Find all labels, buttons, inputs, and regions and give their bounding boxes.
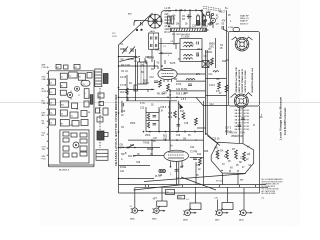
labels pack <box>214 148 251 170</box>
tick marks v3 <box>157 66 159 69</box>
cap marks on wire <box>238 124 242 126</box>
vertical wire <box>177 101 179 132</box>
left margin ticks <box>47 67 49 155</box>
svg-text:262K: 262K <box>42 91 47 93</box>
cap marks on drop <box>187 14 189 19</box>
cap <box>188 83 192 85</box>
svg-text:C5 05: C5 05 <box>148 58 155 60</box>
pilot jack circles <box>159 169 166 172</box>
svg-text:C1: C1 <box>50 83 52 85</box>
scan fold artifact <box>0 102 320 104</box>
wire <box>204 105 229 107</box>
cover part <box>80 139 87 143</box>
diag wire to pack <box>207 136 220 146</box>
svg-text:6AT6: 6AT6 <box>170 62 176 65</box>
labels sw <box>120 145 135 150</box>
svg-text:L: L <box>85 93 86 95</box>
svg-text:6BA6: 6BA6 <box>130 218 135 221</box>
diagonal wire to pack <box>144 174 246 182</box>
svg-text:76 PM: 76 PM <box>243 126 249 128</box>
svg-text:250K: 250K <box>130 123 136 125</box>
resistor on wire <box>134 85 138 91</box>
labels above box <box>140 103 154 110</box>
labels out2 <box>125 152 201 179</box>
svg-text:C23 05: C23 05 <box>212 139 220 141</box>
shield double line <box>205 50 207 135</box>
antenna terminal dot <box>136 29 138 31</box>
top labels col2 <box>173 16 189 26</box>
top row box <box>87 73 92 79</box>
svg-text:V1: V1 <box>79 77 81 79</box>
svg-text:AVC: AVC <box>42 114 47 117</box>
mid part <box>81 111 87 117</box>
connector tick <box>255 185 257 188</box>
top labels col3 <box>204 16 227 29</box>
labels V4 area <box>170 147 209 180</box>
svg-text:T1: T1 <box>61 77 63 79</box>
top v2 labels <box>192 8 229 32</box>
resistor in pack <box>243 152 246 161</box>
labels out <box>120 149 202 177</box>
wire <box>128 139 204 141</box>
coil mid <box>213 71 219 72</box>
wire <box>126 100 177 102</box>
cover part <box>80 152 87 156</box>
svg-text:6AQ5: 6AQ5 <box>239 219 244 222</box>
notes text block <box>262 178 284 200</box>
chassis fold dashed line <box>99 88 101 148</box>
cover part <box>71 133 77 137</box>
long wire <box>226 10 228 135</box>
diag wire to pack <box>206 133 219 144</box>
wire <box>133 155 164 157</box>
svg-text:76 PM: 76 PM <box>243 119 249 121</box>
wire <box>177 73 205 75</box>
resistor on long wire <box>225 85 228 92</box>
resistor in pack <box>226 150 229 159</box>
svg-text:6BE6: 6BE6 <box>152 219 157 221</box>
chassis bottom edge <box>48 164 94 166</box>
svg-text:C4 05: C4 05 <box>165 17 172 19</box>
coil top leads <box>139 58 141 62</box>
resistor in pack <box>235 150 238 159</box>
connector box <box>99 102 104 106</box>
ground bus wire <box>119 184 267 186</box>
svg-text:C7: C7 <box>78 95 80 97</box>
svg-text:R1: R1 <box>61 86 63 88</box>
wire <box>146 131 204 133</box>
svg-text:6V: 6V <box>180 167 183 169</box>
svg-text:C15: C15 <box>168 113 173 115</box>
svg-text:8A 188: 8A 188 <box>235 125 243 128</box>
labels IF <box>184 44 227 107</box>
spark plate dark stack <box>103 74 108 84</box>
paper noise overlay <box>40 0 300 226</box>
svg-text:PL 47: PL 47 <box>155 176 162 178</box>
wire speaker to pack <box>242 108 244 144</box>
svg-text:T: T <box>88 98 89 100</box>
dark narrow part <box>90 95 93 105</box>
resistor R11 <box>174 111 177 118</box>
resistor R7 <box>211 58 214 65</box>
dots <box>151 139 153 141</box>
svg-text:C8 1: C8 1 <box>197 49 203 51</box>
svg-text:RECT: RECT <box>219 12 226 14</box>
svg-text:8A 188: 8A 188 <box>235 128 243 131</box>
tuning gang box <box>149 33 159 49</box>
vertical wire <box>195 162 197 185</box>
cover part <box>72 153 77 157</box>
vertical wire <box>169 101 171 140</box>
trimmer cap arrow <box>122 47 128 54</box>
socket drop wire <box>195 187 197 203</box>
svg-text:C2 05: C2 05 <box>120 77 127 79</box>
cap in ladder <box>153 115 157 117</box>
electrolytic cap C20 <box>197 16 200 25</box>
long vertical wire <box>203 101 205 186</box>
tall part <box>84 89 89 99</box>
speaker top plate <box>232 37 253 51</box>
svg-text:C3: C3 <box>50 103 52 105</box>
resistor R15 <box>199 158 202 165</box>
svg-text:VIB: VIB <box>214 148 218 150</box>
cap below tube <box>175 169 179 171</box>
left col part <box>50 119 56 125</box>
wire <box>121 101 123 113</box>
svg-text:B2: B2 <box>75 67 77 69</box>
top row box <box>60 73 67 79</box>
svg-text:L2: L2 <box>70 91 72 93</box>
diag wire <box>196 97 204 106</box>
svg-text:76 PM: 76 PM <box>243 123 249 125</box>
svg-text:6X4: 6X4 <box>204 26 209 28</box>
svg-text:C7 05: C7 05 <box>120 85 127 87</box>
svg-text:VOICE COIL 3.2 OHM: VOICE COIL 3.2 OHM <box>245 70 247 92</box>
svg-text:PL: PL <box>167 192 169 194</box>
tick <box>194 130 196 132</box>
vertical wire <box>160 38 162 70</box>
junction dots extra <box>135 65 137 67</box>
svg-text:C4: C4 <box>50 113 52 115</box>
labels left col <box>120 49 133 85</box>
diagonal shield wire <box>119 13 153 45</box>
connector tick <box>238 185 240 188</box>
svg-text:C3 R1: C3 R1 <box>165 11 172 13</box>
resistor R6 <box>167 84 170 91</box>
antenna coupling cap <box>140 22 142 26</box>
shield hatch dashes <box>203 6 221 11</box>
svg-text:76 PM: 76 PM <box>243 129 249 131</box>
top mounting tab <box>233 28 240 32</box>
bottom border wire <box>119 192 260 194</box>
svg-text:C2: C2 <box>50 92 52 94</box>
mid part <box>81 120 88 126</box>
gang trimmer <box>149 44 151 47</box>
svg-text:TONE: TONE <box>143 143 150 145</box>
svg-text:SP 12V: SP 12V <box>216 181 223 183</box>
svg-text:C21: C21 <box>197 24 202 26</box>
mid part <box>72 121 79 127</box>
left border wire <box>118 45 120 193</box>
labels sw2 <box>128 156 141 164</box>
RF unit hatched bar <box>171 28 207 31</box>
svg-text:MEG: MEG <box>165 23 170 25</box>
lamp lead <box>212 23 214 28</box>
bottom cover inner rect <box>60 130 89 163</box>
labels AF left <box>120 85 128 94</box>
wire <box>175 43 177 49</box>
cap C10 <box>154 80 158 82</box>
svg-text:R21 25: R21 25 <box>128 156 136 158</box>
top right text block <box>240 15 250 26</box>
svg-text:R2 1M: R2 1M <box>165 20 172 22</box>
labels density2 <box>141 45 203 96</box>
labels mid2 <box>143 107 191 145</box>
speaker plug block <box>97 131 104 140</box>
svg-text:C13: C13 <box>140 108 145 110</box>
svg-text:8A 188: 8A 188 <box>235 112 243 115</box>
svg-text:C17 5: C17 5 <box>225 128 232 130</box>
wire <box>119 88 155 90</box>
wire <box>190 157 204 159</box>
tube socket S3 <box>183 203 201 216</box>
labels top2 <box>207 12 233 24</box>
svg-text:C9: C9 <box>76 109 78 111</box>
svg-text:470K: 470K <box>176 84 182 86</box>
svg-text:6BW6: 6BW6 <box>147 149 154 151</box>
tube socket S4 <box>215 200 233 216</box>
labels AF <box>143 37 207 96</box>
pack dots <box>221 170 222 171</box>
wire <box>197 127 206 129</box>
left col part <box>50 79 56 85</box>
mid part <box>72 103 78 109</box>
svg-text:T3: T3 <box>71 116 73 118</box>
socket drop wire <box>161 187 163 201</box>
IF secondary coil <box>184 55 193 57</box>
IF transformer T1 can <box>180 39 202 62</box>
power pack hexagon <box>211 142 254 173</box>
svg-text:8A 188: 8A 188 <box>235 122 243 125</box>
svg-text:6V: 6V <box>247 147 250 149</box>
cover part <box>63 132 69 136</box>
wire <box>176 80 206 82</box>
svg-text:C11 5: C11 5 <box>209 85 216 87</box>
resistor R8 <box>218 82 221 89</box>
vertical wire pair <box>135 49 137 101</box>
svg-text:6X4: 6X4 <box>178 197 181 199</box>
small box right <box>104 133 108 137</box>
tube socket circle <box>67 92 72 97</box>
svg-text:T2: T2 <box>69 76 71 78</box>
bus tick <box>184 9 186 11</box>
antenna wire <box>134 20 148 22</box>
vertical wire <box>153 60 155 69</box>
svg-text:SW: SW <box>70 125 73 127</box>
labels above V4 <box>153 135 186 148</box>
svg-text:R13: R13 <box>197 154 202 156</box>
svg-text:Ford 8A 18805 schematic: Ford 8A 18805 schematic <box>284 107 287 135</box>
IF primary trimmer <box>196 42 198 45</box>
dots det <box>169 90 171 92</box>
hex bottom wire <box>237 173 239 185</box>
speaker text block <box>235 109 249 131</box>
vertical wire det <box>169 89 171 150</box>
bus tick <box>195 9 197 11</box>
svg-text:Louis Vintage Radio Museum: Louis Vintage Radio Museum <box>279 97 283 140</box>
chassis outline <box>48 71 94 167</box>
svg-text:R8: R8 <box>88 112 90 114</box>
svg-text:C8B: C8B <box>42 103 47 105</box>
svg-text:VIBRATOR: VIBRATOR <box>231 135 243 138</box>
wire <box>173 32 175 45</box>
svg-text:A1: A1 <box>57 66 59 69</box>
speaker bottom plate <box>231 93 253 109</box>
mid part <box>60 83 67 88</box>
tube V3 6AT6 oval <box>158 68 177 82</box>
wire <box>159 42 176 44</box>
wire <box>119 96 206 98</box>
svg-text:T2 PRI: T2 PRI <box>190 152 198 154</box>
trimmer drop wire <box>179 10 181 28</box>
shield can dome <box>161 10 203 22</box>
switch marks <box>128 145 134 148</box>
svg-text:OSC: OSC <box>209 47 214 49</box>
border tick right <box>260 116 263 118</box>
svg-text:R17: R17 <box>180 111 185 113</box>
transformer box small <box>202 61 209 68</box>
diagonal wire <box>134 185 183 190</box>
svg-text:6BA6: 6BA6 <box>183 219 188 222</box>
IF secondary trimmer <box>196 54 198 57</box>
svg-text:1M: 1M <box>42 123 45 125</box>
resistor R5 <box>159 80 162 87</box>
cap in ladder <box>153 123 157 125</box>
mid part <box>60 120 69 127</box>
svg-text:MOUNTING DETAIL 6x9: MOUNTING DETAIL 6x9 <box>251 67 254 92</box>
svg-text:P1: P1 <box>99 96 101 98</box>
svg-text:C19: C19 <box>196 165 201 167</box>
bottom small text <box>154 198 219 202</box>
svg-text:6AT6: 6AT6 <box>215 219 219 222</box>
svg-text:SYN: SYN <box>240 133 245 135</box>
labels coil area <box>112 33 137 73</box>
osc pill <box>81 80 90 86</box>
svg-text:14A: 14A <box>120 170 125 173</box>
wire speaker to pack <box>238 108 240 143</box>
labels right mid <box>225 125 255 134</box>
cap left col <box>121 103 123 106</box>
connector tick <box>147 185 149 188</box>
svg-text:10MF: 10MF <box>203 30 209 32</box>
svg-text:R12: R12 <box>168 117 173 119</box>
cap on wire <box>177 124 181 126</box>
connector tick <box>182 185 184 188</box>
cover part <box>80 146 87 151</box>
output plug box <box>96 150 108 161</box>
svg-text:76 PM: 76 PM <box>243 110 249 112</box>
tube socket circle <box>75 86 80 91</box>
small cap box <box>207 12 210 15</box>
svg-text:CONT: CONT <box>143 83 150 85</box>
svg-text:4.7K: 4.7K <box>140 103 145 105</box>
svg-text:R18: R18 <box>222 61 227 63</box>
wire <box>170 90 205 92</box>
svg-text:2 8 2: 2 8 2 <box>181 99 187 101</box>
svg-text:F 304: F 304 <box>228 27 234 29</box>
connector box <box>97 117 103 122</box>
resistor left col <box>126 88 128 95</box>
connector box <box>103 108 108 115</box>
trimmer box above chassis <box>64 65 69 69</box>
svg-text:R3 47: R3 47 <box>165 32 172 34</box>
mid part <box>60 110 67 116</box>
tube socket S2 <box>153 201 168 213</box>
svg-text:47K: 47K <box>216 91 221 93</box>
trimmer drop wire <box>201 10 203 28</box>
svg-text:1K: 1K <box>121 115 124 117</box>
svg-text:C24: C24 <box>190 147 195 149</box>
svg-text:0A: 0A <box>249 164 252 167</box>
cover part <box>63 153 69 157</box>
cap C16 <box>193 157 197 159</box>
svg-text:C15 5: C15 5 <box>160 107 167 109</box>
diagonal wire down <box>181 177 216 190</box>
svg-text:6V: 6V <box>230 168 233 170</box>
svg-text:6BE6: 6BE6 <box>209 44 215 46</box>
socket drop wire <box>227 187 229 202</box>
svg-text:76 PM: 76 PM <box>243 116 249 118</box>
vertical wire <box>126 75 128 101</box>
svg-text:R2: R2 <box>61 123 63 125</box>
svg-text:C18: C18 <box>184 123 189 125</box>
wire <box>206 95 227 97</box>
svg-text:ON: ON <box>120 145 124 147</box>
tube socket S5 <box>239 188 252 216</box>
speaker box <box>228 32 259 107</box>
diode arrow <box>180 105 183 110</box>
labels det <box>159 93 187 113</box>
coil can box <box>138 62 148 84</box>
resistor in pack <box>216 150 219 159</box>
svg-text:L1 05: L1 05 <box>165 8 171 10</box>
top row box <box>69 72 78 78</box>
svg-text:C6 01: C6 01 <box>165 26 172 28</box>
svg-text:6BA6 RF: 6BA6 RF <box>240 15 250 18</box>
electrolytic cap C21 <box>202 16 205 25</box>
trimmer box above chassis <box>74 65 80 70</box>
vertical wire <box>178 162 180 185</box>
svg-text:250K: 250K <box>145 135 151 137</box>
svg-text:6BA6 IF: 6BA6 IF <box>240 20 249 23</box>
wire <box>145 60 147 64</box>
B+ top bus wire <box>166 9 203 11</box>
junction dots <box>147 56 149 58</box>
mid part <box>84 101 89 107</box>
wire <box>176 42 180 44</box>
svg-text:C28: C28 <box>176 135 181 137</box>
bus dot <box>181 9 183 11</box>
mid part <box>60 101 68 107</box>
junction dots mid <box>143 131 145 133</box>
coil cluster lower <box>186 79 195 81</box>
svg-text:1 M: 1 M <box>159 111 163 113</box>
svg-text:C20: C20 <box>192 26 197 28</box>
wire <box>145 56 152 58</box>
wire <box>119 165 151 167</box>
svg-text:SP: SP <box>239 162 243 164</box>
labels hex2 <box>216 153 252 169</box>
